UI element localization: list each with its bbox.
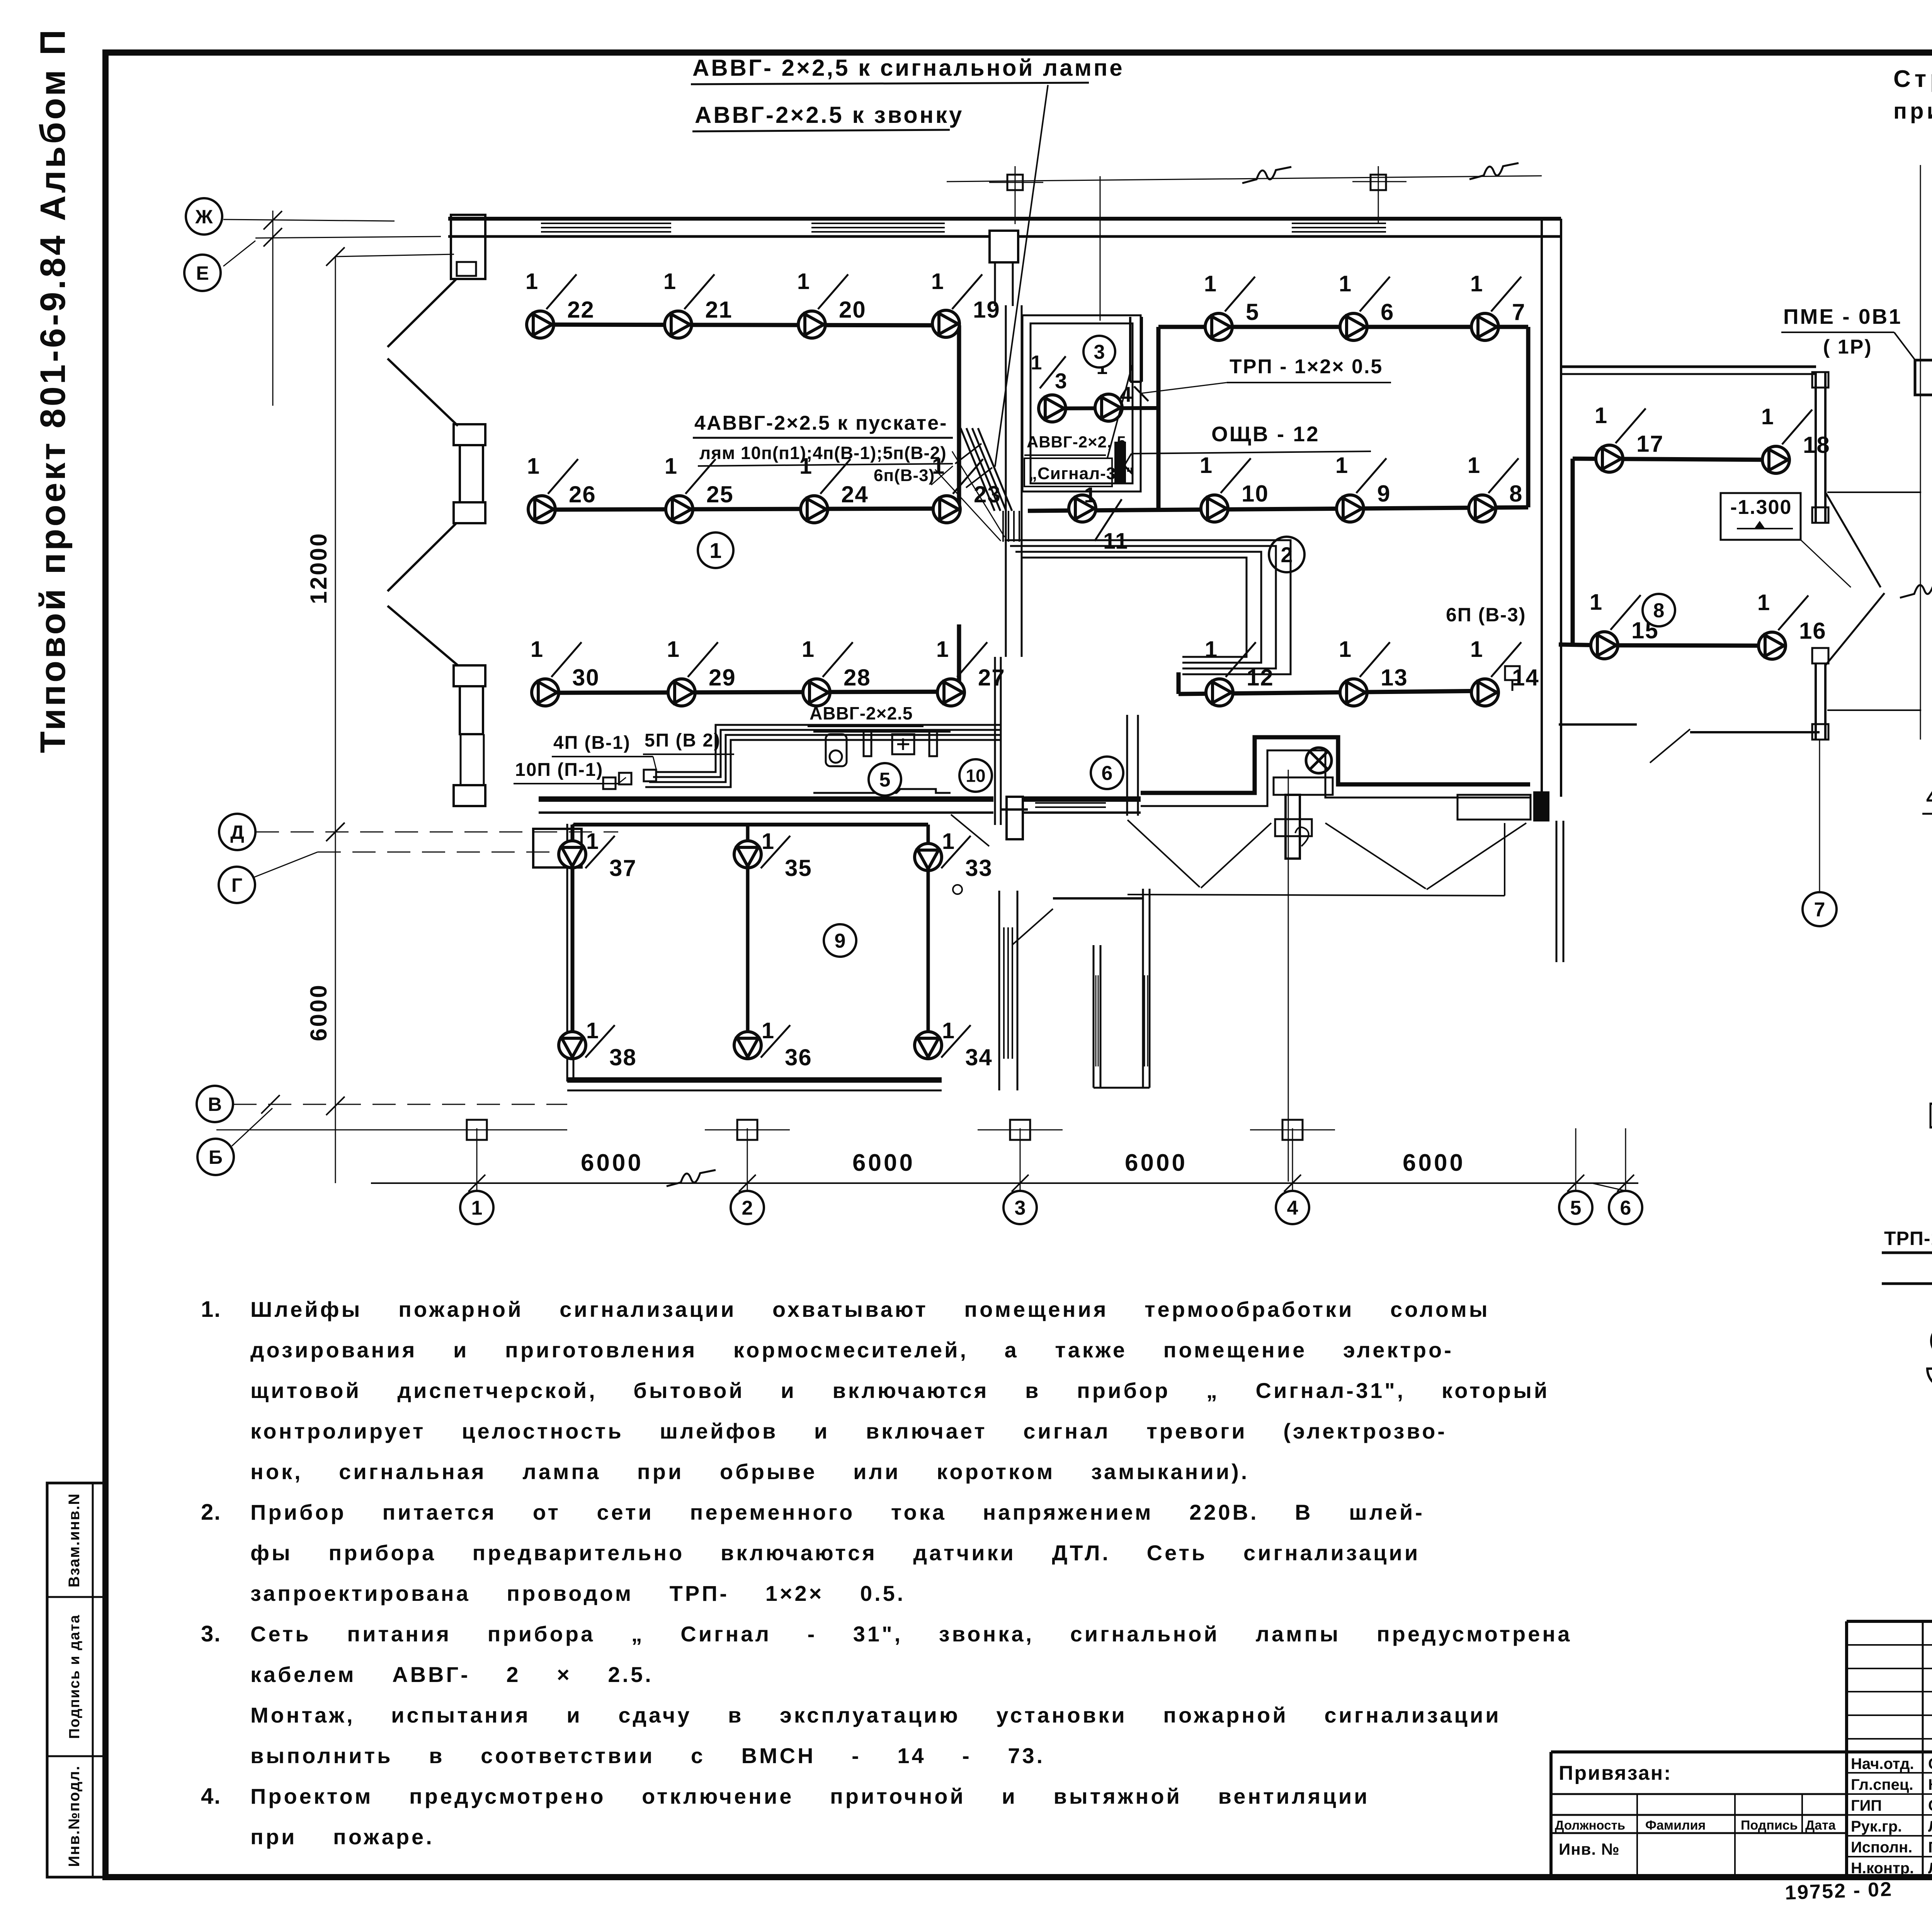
svg-text:6: 6 [1381,299,1394,325]
svg-text:фы прибора предварительно: фы прибора предварительно включаются дат… [250,1541,1420,1565]
svg-text:30: 30 [572,665,600,690]
svg-text:4: 4 [1287,1197,1298,1219]
svg-text:выполнить в соответствии: выполнить в соответствии с ВМСН - 14 - 7… [250,1743,1045,1768]
svg-text:1: 1 [1470,271,1483,296]
svg-text:Ж: Ж [195,206,213,228]
device Signal-31 blob [1114,442,1126,483]
svg-text:Сыркин: Сыркин [1928,1797,1932,1814]
svg-text:1: 1 [1205,637,1217,662]
svg-text:АВВГ-2×2.5: АВВГ-2×2.5 [810,703,913,723]
axis extension vertical [272,211,274,406]
axis bubble В [197,1086,233,1122]
svg-text:34: 34 [965,1044,993,1070]
svg-text:21: 21 [705,297,733,323]
svg-text:Лариков: Лариков [1928,1818,1932,1835]
svg-text:ПМЕ - 0В1: ПМЕ - 0В1 [1783,304,1902,328]
svg-text:1: 1 [762,1018,774,1043]
svg-text:1: 1 [586,1018,599,1043]
svg-text:1: 1 [1470,637,1483,662]
leaders 6П(В-3) to bundle [952,451,1005,537]
column 4 axis line [1288,770,1289,1182]
svg-text:3: 3 [1015,1197,1026,1219]
svg-text:29: 29 [709,665,736,690]
window sill right [1458,795,1531,820]
annex east wall [998,891,1000,1090]
annex south wall [567,1077,942,1083]
west chevron wall lower [388,523,456,591]
room circle 8 [1643,594,1675,626]
svg-text:6000: 6000 [581,1150,643,1176]
svg-text:Пересыпкина: Пересыпкина [1928,1839,1932,1856]
axis leader Е [223,241,255,266]
svg-text:13: 13 [1381,665,1408,690]
leader line from annotations to plan [995,85,1048,467]
wall: main top wall outer [448,217,1561,221]
svg-text:Исполн.: Исполн. [1851,1839,1912,1856]
axis bubble Б [197,1139,234,1175]
svg-text:Киселев: Киселев [1928,1776,1932,1793]
svg-text:5: 5 [1246,299,1259,325]
axis leader Б [232,1108,272,1146]
svg-text:1: 1 [797,269,810,294]
svg-text:1: 1 [942,829,954,854]
svg-text:-1.300: -1.300 [1730,496,1792,519]
wall: south wall under room 6 [1024,796,1141,802]
svg-text:10: 10 [966,766,985,786]
detector 1/18 [1762,446,1789,473]
svg-text:ТРП - 1×2× 0.5: ТРП - 1×2× 0.5 [1230,355,1383,378]
svg-text:АВВГ- 2×2,5 к сигнальной ла: АВВГ- 2×2,5 к сигнальной лампе [692,55,1124,81]
wire loop 2 west riser [1156,327,1161,509]
svg-text:33: 33 [965,855,993,881]
east chevron [1825,492,1881,587]
door pillar lower-left [533,829,582,867]
svg-text:Монтаж, испытания и сдачу: Монтаж, испытания и сдачу в эксплуатацию… [250,1703,1501,1727]
column axis bubble 6 [1625,1128,1626,1190]
svg-text:4: 4 [1120,382,1132,406]
svg-text:ТРП-1×2×0.5: ТРП-1×2×0.5 [1884,1228,1932,1249]
svg-text:Типовой проект 801-6-9.84: Типовой проект 801-6-9.84 Альбом П [33,27,73,753]
detector 1/16 [1759,632,1786,659]
axis marker square 2 [1007,175,1023,190]
canopy axis vertical [1100,176,1101,321]
svg-text:АВВГ-2×2, 5: АВВГ-2×2, 5 [1027,433,1126,451]
svg-text:1: 1 [527,454,539,479]
svg-text:4АВВГ-2×2.5 к пускате-: 4АВВГ-2×2.5 к пускате- [694,412,947,434]
annex loop verticals [571,825,574,1045]
vestibule wall east [1142,889,1144,1088]
wire loop 1 row C [545,692,959,693]
wire loop wing row [1573,459,1776,460]
detector 1/35 [734,841,761,868]
detector 1/23 [933,496,960,523]
column 6 leader [1592,1183,1626,1191]
svg-text:1: 1 [762,829,774,854]
svg-text:8: 8 [1509,481,1523,507]
axis bubble Г [219,867,255,903]
svg-text:Лариков: Лариков [1928,1860,1932,1877]
wire riser row C to bundle [957,624,961,692]
svg-text:6000: 6000 [306,983,332,1041]
svg-text:1: 1 [1761,404,1774,429]
detector 1/5 [1205,313,1232,340]
wire loop 2 east riser [1526,327,1531,507]
svg-text:Д: Д [230,821,244,843]
svg-text:Н.контр.: Н.контр. [1851,1860,1914,1877]
window hatch room 6 south [1035,802,1106,804]
starter terminal boxes [603,777,616,789]
svg-text:4АВВГ- 2 × 2.5: 4АВВГ- 2 × 2.5 [1926,785,1932,809]
detector 1/6 [1340,313,1367,340]
svg-text:Г: Г [231,874,242,896]
svg-text:3: 3 [1094,341,1105,364]
svg-text:ГИП: ГИП [1851,1797,1882,1814]
svg-text:щитовой диспетчерской, быто: щитовой диспетчерской, бытовой и включаю… [250,1378,1549,1403]
svg-text:Дата: Дата [1805,1818,1836,1833]
svg-text:Фамилия: Фамилия [1645,1818,1706,1833]
partition stub 1 [864,731,871,756]
room circle 5 [869,763,901,796]
detectors room 3 [1052,408,1158,408]
window hatches in top wall [541,223,671,224]
lower Б axis line [216,1129,567,1131]
legend symbol control device [1930,1104,1932,1128]
detector 1/19 [932,310,959,337]
detector 1/26 [528,496,555,523]
room circle 10 [959,759,992,792]
svg-text:19: 19 [973,297,1000,323]
detector 1/37 [559,841,586,868]
svg-text:2.: 2. [201,1500,221,1525]
detector 1/11 [1069,495,1096,522]
svg-text:17: 17 [1636,431,1664,457]
svg-text:кабелем АВВГ- 2 × 2.5.: кабелем АВВГ- 2 × 2.5. [250,1662,653,1687]
svg-text:7: 7 [1814,899,1825,921]
axis bubble Д [219,814,255,850]
corridor bundle verticals lower [1002,511,1004,542]
svg-text:1.: 1. [201,1297,221,1322]
svg-text:1: 1 [1757,590,1770,615]
sink box with plus [892,734,914,754]
left margin stamp table [47,1483,105,1877]
wing south walls with door [1559,723,1637,726]
svg-text:Инв. №: Инв. № [1559,1840,1620,1858]
wall: main hall east wall [1541,219,1543,797]
svg-text:1: 1 [1339,637,1351,662]
detector 1/25 [666,496,693,523]
svg-text:Структурная схема: Структурная схема [1893,66,1932,92]
svg-text:7: 7 [1512,299,1526,325]
svg-text:28: 28 [844,665,871,690]
room circle 2 [1269,537,1304,572]
curl mark near 1/33 [953,885,962,894]
svg-text:лям 10п(п1);4п(В-1);5п(В-2): лям 10п(п1);4п(В-1);5п(В-2) [699,443,947,463]
axis line Д [256,832,618,833]
terminal box right of 1/14 [1505,666,1520,680]
svg-text:24: 24 [841,481,869,507]
svg-text:1: 1 [586,829,599,854]
svg-text:( 1Р): ( 1Р) [1823,336,1872,358]
axis marker square 4 [1371,175,1386,190]
detector 1/29 [668,679,695,706]
door curl mark [1295,827,1309,846]
svg-text:1: 1 [1204,271,1216,296]
svg-text:1: 1 [1339,271,1351,296]
svg-text:ОЩВ - 12: ОЩВ - 12 [1211,422,1320,446]
svg-text:5: 5 [1570,1197,1582,1219]
PME box [1915,360,1932,395]
wire loop 1 row B [542,509,959,510]
svg-text:14: 14 [1512,665,1539,690]
svg-text:5: 5 [879,769,891,791]
detector 1/38 [559,1032,586,1059]
svg-text:8: 8 [1653,600,1665,622]
room 5 inner floor line [813,789,951,793]
svg-text:16: 16 [1799,618,1827,644]
leader to level box [1801,540,1851,587]
level mark box -1.300 [1721,493,1801,540]
svg-text:6: 6 [1620,1197,1631,1219]
detector 1/7 [1471,313,1498,340]
svg-text:1: 1 [667,637,679,662]
room circle 7 with leader [1819,740,1820,892]
east wing top wall [1561,366,1816,368]
partition stub 2 [929,731,937,756]
svg-text:контролирует целостность: контролирует целостность шлейфов и включ… [250,1419,1447,1443]
detector 1/34 [915,1032,942,1059]
west pilaster 1 [454,424,485,445]
svg-text:36: 36 [785,1044,812,1070]
annex west wall [573,824,575,1082]
svg-text:4П (В-1): 4П (В-1) [553,733,631,753]
detector 1/22 [527,311,554,338]
central canopy shaft [990,231,1018,262]
room 5 sanitary block top wall [813,730,951,733]
svg-text:1: 1 [1200,453,1212,478]
cross pillar [1007,797,1023,839]
svg-text:1: 1 [1031,352,1042,374]
wire loop 2 row B [1028,507,1528,511]
east axis stub lines [1827,492,1921,493]
wire loop 1 row A [540,325,959,325]
svg-text:35: 35 [785,855,812,881]
svg-text:27: 27 [978,665,1005,690]
column axis bubble 3 [1020,1128,1021,1190]
column axis bubble 2 [747,1128,748,1190]
room circle 1 [698,532,733,568]
svg-text:6: 6 [1102,762,1113,785]
svg-text:6п(В-3): 6п(В-3) [874,466,935,485]
svg-text:22: 22 [567,297,595,323]
wire loop 2 top row [1158,325,1528,329]
room circle 6 [1091,757,1123,789]
svg-text:нок, сигнальная лампа: нок, сигнальная лампа при обрыве или кор… [250,1459,1249,1484]
svg-text:26: 26 [569,481,596,507]
svg-text:18: 18 [1803,432,1830,458]
axis leader Г [254,852,318,877]
label 6П(В-3) above 1/23 leader [931,466,953,485]
svg-text:Б: Б [209,1146,223,1168]
svg-text:3: 3 [1055,369,1067,393]
svg-text:1: 1 [526,269,538,294]
room 3 corner wall [1129,317,1131,382]
squiggle on dimension line [667,1170,716,1186]
detector 1/28 [803,679,830,706]
svg-text:37: 37 [609,855,637,881]
gate pillar [1286,795,1300,859]
detector 1/9 [1337,495,1364,522]
svg-text:38: 38 [609,1044,637,1070]
left starter wire bundle [657,725,1001,772]
svg-text:Е: Е [196,262,209,284]
signal lamp at gate [1306,748,1332,773]
svg-text:1: 1 [471,1197,483,1219]
annex loop header wire [573,823,928,827]
column axis bubble 5 [1575,1128,1577,1190]
svg-text:Шлейфы пожарной сигнализац: Шлейфы пожарной сигнализации охватывают … [250,1297,1490,1321]
svg-text:Прибор питается от сети: Прибор питается от сети переменного тока… [250,1500,1425,1524]
axis line Ж [223,219,395,221]
wall: main top wall inner [448,235,990,238]
svg-text:прибора „ Сигнал-31": прибора „ Сигнал-31" [1893,99,1932,124]
axis line В [233,1104,567,1105]
svg-text:Привязан:: Привязан: [1559,1762,1672,1784]
svg-text:10: 10 [1242,481,1269,507]
detector 1/20 [798,311,825,338]
gate V marks [1128,820,1200,887]
svg-text:Проектом предусмотрено: Проектом предусмотрено отключение приточ… [250,1784,1370,1808]
svg-text:при пожаре.: при пожаре. [250,1825,434,1849]
svg-text:6000: 6000 [1403,1150,1465,1176]
svg-text:1: 1 [802,637,814,662]
svg-text:9: 9 [1377,481,1391,507]
legend power cable mark [1882,1282,1932,1285]
svg-text:9: 9 [835,930,846,952]
bottom dimension line [371,1182,1638,1184]
detector 1/14 [1471,679,1498,706]
svg-text:В: В [208,1094,222,1115]
wall+conduit: right hall south (stepped) [1141,737,1530,793]
window sill left [1274,777,1333,795]
wire loop riser A-B [957,325,961,509]
room 6 east wall [1126,715,1128,816]
svg-text:Должность: Должность [1555,1818,1625,1832]
west wall lower segment [460,734,462,785]
svg-text:6П (В-3): 6П (В-3) [1446,604,1526,626]
svg-text:1: 1 [1590,590,1602,615]
legend bell [1927,1369,1932,1388]
wire loop 2 row C [1179,691,1485,694]
detector 1/30 [532,679,559,706]
svg-text:10П (П-1): 10П (П-1) [515,760,603,780]
axis stub markers bottom [467,1120,487,1140]
annex east window hatch [1003,927,1005,1059]
svg-text:1: 1 [663,269,676,294]
detector 1/27 [937,679,964,706]
svg-text:Подпись: Подпись [1741,1818,1798,1833]
gate yard east wall [1556,821,1558,962]
room circle 9 [824,924,856,957]
svg-text:25: 25 [706,481,734,507]
detector 1/21 [665,311,692,338]
svg-text:19752 - 02: 19752 - 02 [1784,1878,1893,1904]
svg-text:Сеть питания прибора „ Си: Сеть питания прибора „ Сигнал - 31", зво… [250,1622,1572,1646]
top axis line [947,176,1542,182]
svg-text:запроектирована проводом: запроектирована проводом ТРП- 1×2× 0.5. [250,1581,905,1605]
top-left porch [451,215,485,279]
detector 1/10 [1201,495,1228,522]
svg-text:1: 1 [1595,403,1607,428]
svg-text:1: 1 [1468,453,1480,478]
svg-text:3.: 3. [201,1621,221,1646]
west pilaster 2 [454,665,485,686]
corridor wall (room 10) [1005,305,1007,657]
detector 1/12 [1206,679,1233,706]
room circle 3 [1083,336,1115,367]
svg-text:1: 1 [709,538,721,563]
east axis vertical line [1920,165,1921,740]
detector 1/24 [801,496,828,523]
legend signal lamp [1931,1325,1932,1357]
wall tie line [335,254,454,257]
detector 1/13 [1340,679,1367,706]
svg-text:1: 1 [931,269,944,294]
svg-text:20: 20 [839,297,866,323]
svg-text:6000: 6000 [852,1150,915,1176]
column axis bubble 4 [1292,1128,1293,1190]
svg-text:Рук.гр.: Рук.гр. [1851,1818,1902,1835]
svg-text:6000: 6000 [1125,1150,1187,1176]
svg-text:1: 1 [1335,453,1348,478]
svg-text:1: 1 [665,454,677,479]
svg-text:„Сигнал-31": „Сигнал-31" [1029,464,1134,483]
toilet fixture [826,734,847,766]
axis bubble Ж [186,198,222,235]
detector 1/15 [1591,632,1618,659]
detector 1/3 [1039,395,1066,422]
svg-text:12000: 12000 [306,532,332,604]
svg-text:1: 1 [942,1018,954,1043]
svg-text:Взам.инв.N: Взам.инв.N [66,1493,83,1588]
detector 1/33 [915,844,942,871]
svg-text:1: 1 [531,637,543,662]
svg-text:5П (В 2): 5П (В 2) [645,730,721,751]
svg-text:Нач.отд.: Нач.отд. [1851,1755,1914,1772]
vestibule wall west [1093,945,1095,1088]
room 3 walls [1022,315,1141,492]
svg-text:1: 1 [936,637,949,662]
detector 1/36 [734,1032,761,1059]
east wing right wall [1815,372,1817,523]
corridor wire bundle diagonals [961,428,995,511]
svg-text:Подпись и дата: Подпись и дата [66,1614,83,1739]
svg-text:Инв.№подл.: Инв.№подл. [66,1765,83,1867]
svg-text:2: 2 [742,1197,753,1219]
detector 1/4 [1095,394,1122,421]
detector 1/17 [1596,445,1623,472]
detector 1/8 [1469,495,1496,522]
svg-text:Смирнов: Смирнов [1928,1755,1932,1772]
west chevron wall upper [388,279,456,347]
svg-text:АВВГ-2×2.5 к звонку: АВВГ-2×2.5 к звонку [695,102,964,128]
annex door swing [951,815,989,846]
nested corner wire bundle to loop2 [1005,540,1291,674]
svg-text:4.: 4. [201,1784,221,1809]
svg-text:Гл.спец.: Гл.спец. [1851,1776,1913,1793]
svg-text:дозирования и приготовлени: дозирования и приготовления кормосмесите… [250,1338,1454,1362]
column axis bubble 1 [476,1128,478,1190]
wall: main hall south wall (left part) [539,796,993,802]
